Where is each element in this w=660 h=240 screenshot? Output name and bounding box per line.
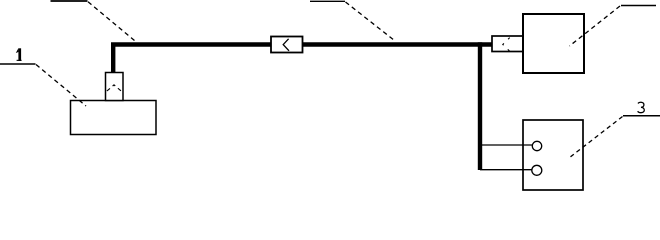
leader for label 3 [571,117,623,157]
leader for label 1 [36,65,86,107]
label line top-right (number cropped) [621,5,656,7]
leader top-left [88,2,136,42]
wire: lower terminal lead [480,169,532,171]
label 1 [16,48,22,61]
inline connector box with arrow [271,37,303,53]
label line top-middle (number cropped) [310,0,345,2]
wire: upper terminal lead [480,144,532,146]
node: right plug into unit 2 [492,36,523,52]
wire: thick vertical drop at right [478,42,482,170]
wire: thick bus, left vertical + horizontal run [113,45,492,75]
leader top-middle [346,2,396,41]
node: sensor plug [106,73,124,101]
leader top-right [570,6,621,46]
hidden chevron in right plug [503,38,510,52]
node: lower right unit (component 3) [523,120,583,190]
node: sensor body (component 1) [71,101,157,135]
hidden chevron in sensor plug [107,85,121,91]
node: upper right unit (component 2) [523,14,584,73]
label line top-left (number cropped) [51,0,88,2]
terminal circle lower [532,165,542,175]
label 3 [638,102,645,112]
terminal circle upper [532,141,541,150]
